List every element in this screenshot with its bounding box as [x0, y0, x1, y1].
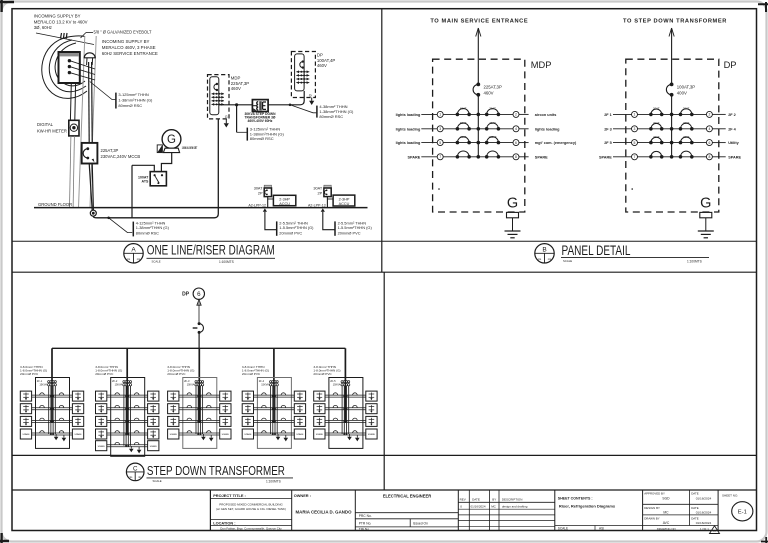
- svg-text:3Ø, 60Hz: 3Ø, 60Hz: [34, 25, 52, 30]
- svg-text:ELECTRICAL ENGINEER: ELECTRICAL ENGINEER: [383, 494, 431, 499]
- feeder drop to transformer bank 1: [51, 348, 53, 380]
- terminal dots in service box: [68, 59, 71, 62]
- transformer bank 4 enclosure: [257, 378, 291, 449]
- MDP ground electrode: [507, 212, 519, 217]
- service entrance terminal box: [59, 52, 80, 83]
- svg-text:SPARE: SPARE: [98, 445, 106, 448]
- panel DP dashed enclosure: [626, 59, 719, 212]
- bank 2 secondary row 5: [107, 444, 148, 446]
- svg-text:3: 3: [634, 127, 636, 131]
- svg-text:60Hz SERVICE ENTRANCE: 60Hz SERVICE ENTRANCE: [102, 51, 158, 56]
- svg-text:DP: DP: [724, 60, 737, 70]
- service drop loop wire 1: [42, 37, 87, 98]
- svg-text:60AT: 60AT: [460, 121, 467, 125]
- svg-text:2F-4: 2F-4: [259, 379, 265, 383]
- MDP inner panel outline: [210, 77, 219, 115]
- panel MDP dashed enclosure (riser): [208, 75, 230, 119]
- svg-text:SCALE: SCALE: [558, 527, 568, 531]
- svg-text:A2-LPP-12: A2-LPP-12: [248, 203, 266, 207]
- svg-text:7: 7: [634, 155, 636, 159]
- label 5/8 galvanized eyebolt: [81, 33, 87, 39]
- bank 2 load box left row 4: [96, 429, 107, 439]
- svg-text:SPARE: SPARE: [316, 433, 324, 436]
- bank 2 load box right row 2: [148, 404, 159, 414]
- svg-text:SHEET NO.: SHEET NO.: [722, 494, 738, 498]
- title block top line: [12, 489, 757, 491]
- svg-text:MERALCO 460V, 3 PHASE: MERALCO 460V, 3 PHASE: [102, 45, 156, 50]
- svg-text:20mmØ PVC: 20mmØ PVC: [279, 230, 302, 235]
- feeder drop to transformer bank 4: [273, 348, 275, 380]
- svg-text:1 OF 1: 1 OF 1: [700, 527, 709, 531]
- main breaker MCCB CB1: [82, 143, 98, 164]
- bank 4 load box right row 1: [294, 391, 305, 401]
- transformer bank 5 enclosure: [329, 378, 363, 449]
- svg-text:2P: 2P: [318, 192, 323, 196]
- bank 1 secondary row 2: [32, 407, 73, 409]
- svg-text:4: 4: [515, 127, 517, 131]
- bank 1 ground symbols: [55, 434, 57, 437]
- svg-text:20mmØ PVC: 20mmØ PVC: [313, 372, 332, 376]
- drawing title C bubble: [126, 463, 144, 481]
- svg-text:ACCU: ACCU: [339, 202, 350, 206]
- bank 4 load box left row 2: [242, 404, 253, 414]
- bank 5 primary fuse circles: [341, 381, 343, 383]
- generator fuel flag symbol: [157, 145, 162, 153]
- svg-text:1:100MTS: 1:100MTS: [687, 260, 702, 264]
- bank 1 spare box left: [20, 429, 31, 439]
- title block outer lines: [209, 490, 211, 531]
- svg-text:TO MAIN SERVICE ENTRANCE: TO MAIN SERVICE ENTRANCE: [430, 19, 528, 25]
- conduit from service box to meter: [69, 83, 72, 120]
- drawing title A bubble: [124, 244, 143, 263]
- bank 3 load box left row 1: [168, 391, 179, 401]
- svg-text:20mmØ PVC: 20mmØ PVC: [167, 372, 186, 376]
- bank 4 load box left row 1: [242, 391, 253, 401]
- service drop loop wire 3: [55, 43, 85, 86]
- ground floor line: [34, 207, 368, 209]
- corner crop mark bottom-right: [761, 537, 768, 543]
- MDP enclosure interior mark: [438, 188, 440, 190]
- svg-text:aircon units: aircon units: [535, 113, 557, 117]
- svg-text:60AT: 60AT: [460, 107, 467, 111]
- svg-text:5: 5: [634, 141, 636, 145]
- bank 4 riser conductors: [273, 381, 275, 424]
- bank 2 load box left row 3: [96, 416, 107, 426]
- svg-text:2P: 2P: [258, 192, 263, 196]
- drawing title B bubble: [535, 244, 554, 263]
- wires from terminals to mast: [71, 61, 96, 69]
- feeder stub down with callout 3-125mm: [236, 105, 238, 133]
- svg-text:PROPOSED MIXED COMMERCIAL BUIL: PROPOSED MIXED COMMERCIAL BUILDING: [219, 503, 283, 507]
- DP panel bus: [671, 95, 673, 157]
- junction node feeder tap: [235, 103, 238, 106]
- svg-text:20mmØ PVC: 20mmØ PVC: [95, 372, 114, 376]
- vertical divider between quadrants (upper): [381, 9, 383, 273]
- bank 3 primary fuse circles: [195, 381, 197, 383]
- svg-text:230VAC,240V MCCB: 230VAC,240V MCCB: [101, 154, 141, 159]
- corner crop mark bottom-left: [0, 533, 9, 543]
- bank 2 spare box right: [148, 441, 159, 451]
- corner crop mark top-left: [0, 0, 14, 12]
- bank 4 spare box right: [294, 429, 305, 439]
- svg-text:01/16/2024: 01/16/2024: [696, 496, 712, 500]
- svg-text:SGD: SGD: [662, 496, 670, 500]
- svg-text:1-5.5mm²THHN (G): 1-5.5mm²THHN (G): [338, 225, 373, 230]
- svg-text:100AT,3P: 100AT,3P: [677, 85, 695, 90]
- svg-text:AVC: AVC: [663, 521, 670, 525]
- DP branch breaker arrows: [296, 71, 309, 73]
- bank 1 secondary row 3: [32, 419, 73, 421]
- wires MCCB to ground junction: [89, 164, 92, 211]
- revision triangle mark: [710, 526, 720, 534]
- feeder arrow into MDP: [476, 28, 479, 37]
- transformer bank 1 enclosure: [36, 378, 70, 449]
- bank 4 load box left row 3: [242, 416, 253, 426]
- DP main breaker: [670, 83, 674, 87]
- svg-text:REV: REV: [460, 498, 466, 502]
- bank 3 secondary row 4: [179, 432, 220, 434]
- svg-text:1-38mm²THHN (G): 1-38mm²THHN (G): [118, 97, 153, 102]
- title block cell project title: [210, 498, 291, 500]
- svg-text:lights loading: lights loading: [535, 127, 560, 131]
- svg-text:MDP: MDP: [531, 60, 552, 70]
- svg-text:460V: 460V: [231, 86, 241, 91]
- svg-text:6: 6: [515, 141, 517, 145]
- ACCU unit 2 box: [333, 195, 355, 206]
- svg-text:TIN No.: TIN No.: [359, 527, 370, 531]
- svg-text:6: 6: [197, 291, 201, 298]
- MDP panel bus: [477, 95, 479, 157]
- svg-text:SCALE: SCALE: [563, 259, 572, 263]
- wire MDP to transformer: [219, 104, 253, 106]
- svg-text:Utility: Utility: [728, 141, 739, 145]
- bank 5 secondary row 4: [325, 432, 366, 434]
- svg-text:ONE LINE/RISER DIAGRAM: ONE LINE/RISER DIAGRAM: [147, 243, 275, 259]
- svg-text:G: G: [167, 134, 176, 146]
- svg-text:15KVA: 15KVA: [115, 384, 123, 387]
- bank 3 spare box left: [168, 429, 179, 439]
- svg-text:100AT: 100AT: [489, 135, 497, 139]
- svg-text:100KVA GEN SET: 100KVA GEN SET: [182, 146, 198, 150]
- bank 5 ground symbols: [349, 434, 351, 437]
- callout feeder 4-125mm: [107, 217, 110, 220]
- svg-text:01/16/2024: 01/16/2024: [471, 504, 486, 508]
- bank 1 load box right row 3: [72, 416, 83, 426]
- svg-text:SPARE: SPARE: [74, 433, 82, 436]
- weatherhead cap: [84, 53, 95, 58]
- callout ACCU1 2-5.5mm: [276, 221, 278, 235]
- bank 4 secondary row 4: [254, 432, 295, 434]
- svg-text:MC: MC: [491, 504, 496, 508]
- bank 4 secondary row 1: [254, 394, 295, 396]
- bank 3 load box right row 1: [220, 391, 231, 401]
- svg-text:80mmØ RSC: 80mmØ RSC: [136, 230, 159, 235]
- svg-text:ATS: ATS: [142, 179, 149, 183]
- svg-text:2F-2: 2F-2: [112, 379, 118, 383]
- svg-text:DATE: DATE: [691, 506, 699, 510]
- service conductors down mast: [88, 62, 91, 143]
- svg-text:INCOMING SUPPLY BY: INCOMING SUPPLY BY: [102, 39, 150, 44]
- svg-text:80mmØ RSC: 80mmØ RSC: [118, 103, 142, 108]
- svg-text:80mmØ RSC: 80mmØ RSC: [319, 114, 343, 119]
- svg-text:20AT: 20AT: [653, 121, 660, 125]
- bank 5 load box left row 2: [314, 404, 325, 414]
- svg-text:20mmØ PVC: 20mmØ PVC: [20, 372, 39, 376]
- svg-text:20mmØ PVC: 20mmØ PVC: [338, 230, 361, 235]
- svg-text:MC: MC: [663, 511, 669, 515]
- svg-text:30AT: 30AT: [254, 187, 263, 191]
- feeder drop to transformer bank 3: [198, 348, 200, 380]
- bank 5 load box left row 3: [314, 416, 325, 426]
- DP inner panel outline: [295, 54, 305, 91]
- svg-text:2F 5: 2F 5: [604, 141, 612, 145]
- bank 2 primary fuse circles: [123, 381, 125, 383]
- automatic transfer switch ATS: [150, 172, 166, 186]
- bank 4 load box right row 3: [294, 416, 305, 426]
- bank 3 secondary row 1: [179, 394, 220, 396]
- bank 1 primary fuse circles: [48, 381, 50, 383]
- svg-text:DIGITAL: DIGITAL: [37, 122, 54, 127]
- bank 2 load box left row 1: [96, 391, 107, 401]
- DP ground electrode: [700, 212, 712, 217]
- bank 5 load box right row 3: [366, 416, 377, 426]
- bank 1 load box left row 2: [20, 404, 31, 414]
- svg-text:SPARE: SPARE: [368, 433, 376, 436]
- bank 4 spare box left: [242, 429, 253, 439]
- svg-text:LOCATION :: LOCATION :: [213, 521, 235, 526]
- svg-text:SPARE: SPARE: [222, 433, 230, 436]
- svg-text:20mmØ PVC: 20mmØ PVC: [242, 372, 261, 376]
- svg-text:KW-HR METER: KW-HR METER: [37, 128, 67, 133]
- svg-text:2-3HP: 2-3HP: [339, 197, 350, 201]
- svg-text:2F-5: 2F-5: [330, 379, 336, 383]
- svg-text:01/16/2024: 01/16/2024: [696, 521, 712, 525]
- bank 1 load box left row 1: [20, 391, 31, 401]
- svg-text:SPARE: SPARE: [150, 445, 158, 448]
- svg-text:2-3HP: 2-3HP: [279, 197, 290, 201]
- svg-text:70AT: 70AT: [489, 121, 496, 125]
- feeder drop to transformer bank 5: [344, 348, 346, 380]
- bank 4 ground symbols: [277, 434, 279, 437]
- svg-text:8: 8: [515, 155, 517, 159]
- homerun arrow circuit 13: [321, 208, 325, 211]
- DP enclosure interior mark: [631, 188, 633, 190]
- bank 5 spare box right: [366, 429, 377, 439]
- svg-text:(w/ GEN SET, GUARD HOUSE & CIG: (w/ GEN SET, GUARD HOUSE & CIG. DIESEL T…: [216, 507, 286, 511]
- svg-text:DP: DP: [182, 292, 190, 298]
- svg-text:PROJECT TITLE :: PROJECT TITLE :: [213, 493, 246, 498]
- svg-text:2F 3: 2F 3: [604, 127, 612, 131]
- bank 2 spare box left: [96, 441, 107, 451]
- bank 3 load box left row 3: [168, 416, 179, 426]
- transformer bank 3 enclosure: [183, 378, 217, 449]
- svg-text:DRAWN BY: DRAWN BY: [644, 517, 660, 521]
- svg-text:2: 2: [515, 113, 517, 117]
- svg-text:G: G: [700, 196, 711, 212]
- bank 2 load box right row 4: [148, 429, 159, 439]
- svg-text:225AT,3P: 225AT,3P: [101, 148, 119, 153]
- svg-text:B: B: [542, 247, 546, 254]
- bank 4 secondary row 3: [254, 419, 295, 421]
- svg-text:15KVA: 15KVA: [333, 384, 341, 387]
- bank 1 load box right row 2: [72, 404, 83, 414]
- bank 1 secondary row 4: [32, 432, 73, 434]
- svg-text:1:100MTS: 1:100MTS: [266, 480, 281, 484]
- svg-text:lights loading: lights loading: [396, 113, 421, 117]
- callout DP feeder 4-38mm: [289, 104, 292, 107]
- bank 3 spare box right: [220, 429, 231, 439]
- bank 3 load box left row 2: [168, 404, 179, 414]
- step-down main breaker: [198, 322, 201, 325]
- bank 2 secondary row 4: [107, 432, 148, 434]
- ACCU unit 1 box: [273, 195, 295, 205]
- MDP main breaker symbol: [216, 83, 218, 85]
- svg-text:DATE: DATE: [691, 517, 699, 521]
- bank 3 ground symbols: [202, 434, 204, 437]
- svg-text:DESIGN BY: DESIGN BY: [644, 506, 660, 510]
- svg-text:20AT: 20AT: [683, 135, 690, 139]
- bank 2 secondary row 1: [107, 394, 148, 396]
- panel DP dashed enclosure (riser): [291, 52, 315, 98]
- svg-text:MERALCO 13.2 KV to 460V: MERALCO 13.2 KV to 460V: [34, 19, 88, 24]
- bank 5 load box right row 1: [366, 391, 377, 401]
- transformer distribution bus line: [52, 347, 345, 349]
- svg-text:225AT,3P: 225AT,3P: [484, 85, 502, 90]
- svg-text:5: 5: [439, 141, 441, 145]
- callout mast conduit 3-125mm: [90, 82, 116, 100]
- svg-text:20AT: 20AT: [653, 107, 660, 111]
- step-down strip top line: [12, 454, 757, 456]
- svg-text:70AT: 70AT: [489, 107, 496, 111]
- svg-text:80mmØ RSC: 80mmØ RSC: [250, 136, 274, 141]
- svg-text:lights loading: lights loading: [396, 127, 421, 131]
- bank 5 spare box left: [314, 429, 325, 439]
- svg-text:SPARE: SPARE: [22, 433, 30, 436]
- bank 5 riser conductors: [344, 381, 346, 424]
- vertical divider between quadrants (lower): [383, 272, 385, 490]
- svg-text:20AT: 20AT: [683, 107, 690, 111]
- svg-text:1: 1: [634, 113, 636, 117]
- svg-text:1-38mm²THHN (G): 1-38mm²THHN (G): [136, 225, 170, 230]
- service drop loop wire 2: [49, 40, 86, 92]
- ACCU branch breaker CB-A2: [324, 185, 331, 188]
- svg-text:SPARE: SPARE: [599, 155, 612, 159]
- svg-text:GROUND FLOOR: GROUND FLOOR: [38, 202, 72, 207]
- svg-text:SPARE: SPARE: [535, 155, 548, 159]
- svg-text:Don Fabian, Brgy. Commonwealth: Don Fabian, Brgy. Commonwealth, Quezon C…: [220, 527, 282, 531]
- svg-text:Issued On: Issued On: [413, 521, 428, 525]
- ACCU branch breaker CB-A1: [264, 185, 271, 188]
- bank 1 riser conductors: [51, 381, 53, 424]
- service mast pole: [79, 36, 85, 208]
- feeder arrow into DP: [669, 28, 672, 37]
- leader from incoming-supply note to drop wires: [36, 33, 94, 45]
- svg-text:01/16/2024: 01/16/2024: [696, 511, 712, 515]
- wire breaker2 down to floor line: [326, 197, 328, 208]
- bank 3 secondary row 3: [179, 419, 220, 421]
- conduit from meter down to ground: [70, 136, 71, 208]
- svg-text:G: G: [225, 115, 228, 119]
- svg-text:8: 8: [708, 155, 710, 159]
- DP main breaker symbol: [302, 60, 304, 62]
- svg-text:SPARE: SPARE: [407, 155, 420, 159]
- bank 5 secondary row 2: [325, 407, 366, 409]
- svg-text:460V: 460V: [317, 63, 327, 68]
- svg-text:A: A: [713, 529, 715, 533]
- svg-text:DATE: DATE: [691, 492, 699, 496]
- svg-text:20AT: 20AT: [683, 121, 690, 125]
- bank 2 load box right row 3: [148, 416, 159, 426]
- svg-text:DRAWING NO: DRAWING NO: [657, 527, 677, 531]
- svg-text:2F-3: 2F-3: [184, 379, 190, 383]
- bank 3 load box right row 2: [220, 404, 231, 414]
- bank 3 riser conductors: [198, 381, 200, 424]
- bank 5 load box left row 1: [314, 391, 325, 401]
- generator G1: [162, 130, 181, 149]
- wire breaker1 down to floor line: [267, 197, 269, 208]
- wire generator to ATS: [161, 153, 171, 172]
- svg-text:ACCU: ACCU: [279, 202, 290, 206]
- svg-text:PRC No.: PRC No.: [359, 514, 372, 518]
- svg-text:460V-400V 60Hz: 460V-400V 60Hz: [248, 119, 273, 123]
- svg-text:TO STEP DOWN TRANSFORMER: TO STEP DOWN TRANSFORMER: [623, 19, 727, 25]
- bank 2 secondary row 3: [107, 419, 148, 421]
- svg-text:G: G: [507, 196, 518, 212]
- svg-text:2: 2: [708, 113, 710, 117]
- span wire to eyebolt: [67, 36, 85, 37]
- svg-text:SCALE: SCALE: [153, 479, 162, 483]
- svg-text:400V: 400V: [677, 90, 687, 95]
- svg-text:DATE: DATE: [472, 498, 480, 502]
- bank 4 secondary row 2: [254, 407, 295, 409]
- svg-text:SPARE: SPARE: [244, 433, 252, 436]
- svg-text:SPARE: SPARE: [170, 433, 178, 436]
- homerun arrow circuit 12: [263, 208, 267, 211]
- svg-text:MARIA CECILIA D. GANDO: MARIA CECILIA D. GANDO: [296, 510, 353, 515]
- arrow up to DP: [197, 300, 201, 306]
- svg-text:A: A: [131, 247, 136, 254]
- svg-text:APPROVED BY: APPROVED BY: [644, 492, 665, 496]
- svg-text:mgt' com. (emergency): mgt' com. (emergency): [535, 141, 577, 145]
- bank 3 secondary row 2: [179, 407, 220, 409]
- svg-text:SCALE: SCALE: [152, 259, 161, 263]
- svg-text:2F 2: 2F 2: [728, 113, 736, 117]
- bank 4 primary fuse circles: [270, 381, 272, 383]
- bank 2 secondary row 2: [107, 407, 148, 409]
- wire transformer to DP: [268, 91, 304, 105]
- MDP branch breaker arrows: [212, 93, 225, 95]
- svg-text:4: 4: [708, 127, 710, 131]
- underground feeder run to MDP: [93, 119, 218, 218]
- callout ACCU2 2-5.5mm: [334, 221, 336, 235]
- svg-text:PTR No.: PTR No.: [359, 521, 372, 525]
- junction node at service entry: [90, 210, 96, 216]
- svg-text:OWNER :: OWNER :: [294, 493, 311, 498]
- svg-text:1-5.5mm²THHN (G): 1-5.5mm²THHN (G): [279, 225, 314, 230]
- panel MDP dashed enclosure: [433, 59, 525, 212]
- svg-text:SPARE: SPARE: [296, 433, 304, 436]
- svg-text:1: 1: [439, 113, 441, 117]
- svg-text:INCOMING SUPPLY BY: INCOMING SUPPLY BY: [34, 14, 81, 19]
- bank 5 load box right row 2: [366, 404, 377, 414]
- title block sheet number: [717, 490, 719, 531]
- step-down transformer T1: [252, 100, 268, 112]
- bank 2 riser conductors: [126, 381, 128, 435]
- bank 1 secondary row 1: [32, 394, 73, 396]
- MDP main breaker: [476, 83, 480, 87]
- divider line below one-line/panel-detail strips: [12, 240, 757, 242]
- insulator ticks at drip loop: [61, 33, 62, 39]
